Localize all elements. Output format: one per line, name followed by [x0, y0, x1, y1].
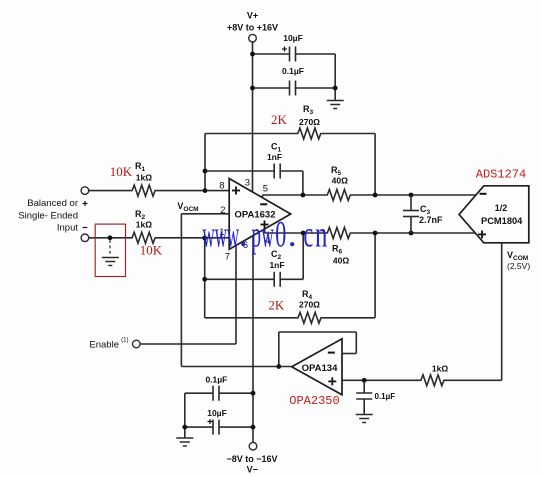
- wire C3 vertical: [410, 195, 412, 210]
- wire C2 line: [205, 278, 275, 280]
- capacitor 10uF top: [289, 47, 291, 62]
- wire VOCM horizontal to buffer: [181, 366, 291, 368]
- svg-text:40Ω: 40Ω: [333, 256, 349, 266]
- wire pin 6 / V- vertical: [252, 236, 254, 443]
- svg-text:OPA2350: OPA2350: [289, 394, 339, 408]
- wire pin 2 VOCM: [181, 213, 229, 215]
- svg-text:10µF: 10µF: [207, 408, 227, 418]
- input - terminal: [81, 234, 89, 242]
- svg-text:Input: Input: [57, 223, 78, 234]
- svg-text:1kΩ: 1kΩ: [432, 364, 448, 374]
- svg-text:270Ω: 270Ω: [299, 117, 320, 127]
- svg-text:ADS1274: ADS1274: [476, 168, 526, 182]
- junction C3 top: [409, 193, 414, 198]
- wire left feedback vertical top: [204, 134, 206, 191]
- svg-text:c: c: [304, 214, 314, 255]
- junction V+ upper: [250, 52, 255, 57]
- PCM1804 plus: [478, 234, 486, 236]
- OPA134 minus: [328, 352, 335, 354]
- junction pin8 node: [203, 188, 208, 193]
- input + terminal: [81, 187, 89, 195]
- junction R3 right: [373, 193, 378, 198]
- wire VCOM horizontal: [443, 379, 501, 381]
- ground bottom left: [176, 437, 193, 439]
- V+ terminal: [249, 34, 257, 42]
- OPA1632 plus in top-left: [232, 190, 240, 192]
- svg-text:n: n: [315, 214, 328, 255]
- wire bottom input: [89, 237, 133, 239]
- wire R3 down to output: [374, 134, 376, 196]
- svg-text:V−: V−: [247, 465, 258, 475]
- resistor R3 270Ohm: [298, 128, 321, 139]
- V- terminal: [249, 442, 257, 450]
- svg-text:2K: 2K: [268, 298, 285, 313]
- wire 0.1uF rail: [253, 87, 290, 89]
- svg-text:10µF: 10µF: [283, 33, 303, 43]
- svg-text:0.1µF: 0.1µF: [282, 66, 304, 76]
- resistor 1kOhm: [421, 375, 444, 386]
- svg-text:+8V to +16V: +8V to +16V: [227, 23, 278, 33]
- svg-text:OPA134: OPA134: [302, 363, 338, 374]
- wire top input: [89, 190, 133, 192]
- svg-text:5: 5: [263, 184, 268, 195]
- svg-text:2K: 2K: [271, 112, 288, 127]
- svg-text:(2.5V): (2.5V): [507, 261, 530, 271]
- pin 4 stub: [264, 228, 266, 233]
- wire top output: [263, 194, 328, 196]
- ADC U2 PCM1804 shape: [459, 186, 529, 243]
- svg-text:w: w: [215, 214, 227, 255]
- dashed wire to ground: [109, 240, 111, 256]
- wire pin 7 vertical: [235, 246, 237, 345]
- junction input ground: [108, 235, 113, 240]
- svg-text:2.7nF: 2.7nF: [419, 215, 443, 225]
- red box: [95, 224, 125, 276]
- junction 10uF left: [182, 425, 187, 430]
- capacitor 10uF bottom: [212, 420, 214, 435]
- resistor R1 1kOhm: [132, 185, 155, 196]
- Enable terminal: [133, 340, 141, 348]
- wire left feedback vertical bottom: [204, 238, 206, 318]
- svg-text:270Ω: 270Ω: [299, 300, 320, 310]
- wire C1 down to output: [302, 171, 304, 195]
- wire bottom output: [265, 232, 328, 234]
- op-amp U3 OPA134 triangle: [292, 339, 342, 395]
- svg-text:40Ω: 40Ω: [332, 176, 348, 186]
- wire 0.1uF bottom rail: [185, 392, 213, 394]
- svg-text:10K: 10K: [110, 164, 133, 179]
- wire VCOM down: [501, 243, 503, 380]
- wire 10uF bottom rail: [185, 426, 213, 428]
- resistor R2 1kOhm: [132, 232, 155, 243]
- wire right supply vertical: [334, 54, 336, 101]
- wire VOCM vertical: [180, 214, 182, 367]
- wire feedback minus: [342, 353, 356, 355]
- junction V- upper: [251, 391, 256, 396]
- wire Enable: [140, 343, 236, 345]
- svg-text:10K: 10K: [140, 243, 163, 258]
- junction V+ lower: [250, 86, 255, 91]
- PCM1804 minus: [480, 193, 487, 195]
- ground in red box: [102, 257, 119, 259]
- wire R4 line: [205, 317, 299, 319]
- wire 10uF rail: [253, 53, 290, 55]
- capacitor 0.1uF bottom: [212, 386, 214, 401]
- wire 0.1uF buffer vertical: [363, 380, 365, 393]
- svg-text:1kΩ: 1kΩ: [136, 173, 152, 183]
- svg-text:w: w: [227, 214, 239, 255]
- OPA1632 plus out bottom: [261, 224, 269, 226]
- wire bottom-left vertical: [184, 393, 186, 438]
- wire feedback right vertical: [355, 332, 357, 354]
- wire C2 up to output: [302, 233, 304, 279]
- svg-text:3: 3: [245, 177, 250, 188]
- junction C2 right: [301, 231, 306, 236]
- junction C1 left: [203, 169, 208, 174]
- svg-text:Balanced or: Balanced or: [27, 198, 78, 209]
- resistor R6 40Ohm: [327, 228, 350, 239]
- wire R4 up to output: [374, 233, 376, 318]
- wire V+ vertical to pin 3: [252, 42, 254, 192]
- junction buffer plus node: [362, 378, 367, 383]
- junction buffer output: [276, 364, 281, 369]
- svg-text:p: p: [252, 215, 262, 255]
- capacitor C1 1nF: [273, 164, 275, 179]
- wire feedback left vertical: [278, 332, 280, 367]
- svg-text:0: 0: [275, 214, 286, 255]
- input + sign: [83, 203, 88, 204]
- junction pin1 node: [202, 236, 207, 241]
- capacitor 0.1uF buffer: [356, 392, 372, 394]
- wire feedback top: [279, 331, 357, 333]
- resistor R5 40Ohm: [327, 190, 350, 201]
- svg-text:Single- Ended: Single- Ended: [18, 211, 78, 222]
- svg-text:0.1µF: 0.1µF: [205, 375, 227, 385]
- svg-text:V+: V+: [247, 11, 258, 21]
- svg-text:1nF: 1nF: [267, 152, 282, 162]
- junction C2 left: [202, 277, 207, 282]
- svg-text:PCM1804: PCM1804: [481, 216, 523, 226]
- op-amp U1 OPA1632 triangle: [229, 179, 291, 250]
- svg-text:8: 8: [219, 181, 224, 192]
- resistor R4 270Ohm: [298, 312, 321, 323]
- wire R3 line: [205, 133, 298, 135]
- pin 5 stub: [262, 195, 264, 199]
- junction V- lower: [251, 425, 256, 430]
- svg-text:1/2: 1/2: [495, 203, 508, 213]
- capacitor C3 2.7nF: [403, 210, 419, 212]
- svg-text:(1): (1): [121, 338, 128, 344]
- svg-text:w: w: [203, 214, 215, 255]
- svg-text:1kΩ: 1kΩ: [136, 220, 152, 230]
- junction C1 right: [301, 193, 306, 198]
- svg-text:−8V to −16V: −8V to −16V: [226, 454, 277, 464]
- svg-text:w: w: [262, 214, 274, 255]
- capacitor C2 1nF: [273, 272, 275, 287]
- ground top right: [327, 100, 344, 102]
- svg-text:1nF: 1nF: [269, 260, 284, 270]
- ground buffer cap: [356, 414, 373, 416]
- OPA134 plus: [328, 381, 336, 383]
- input - sign: [83, 227, 88, 228]
- OPA1632 minus out top: [260, 203, 267, 205]
- svg-text:0.1µF: 0.1µF: [375, 392, 396, 401]
- svg-text:Enable: Enable: [89, 340, 119, 351]
- junction R4 right: [373, 231, 378, 236]
- junction cap right: [333, 86, 338, 91]
- wire C1 line: [205, 170, 274, 172]
- junction C3 bottom: [409, 231, 414, 236]
- capacitor 0.1uF top: [289, 81, 291, 96]
